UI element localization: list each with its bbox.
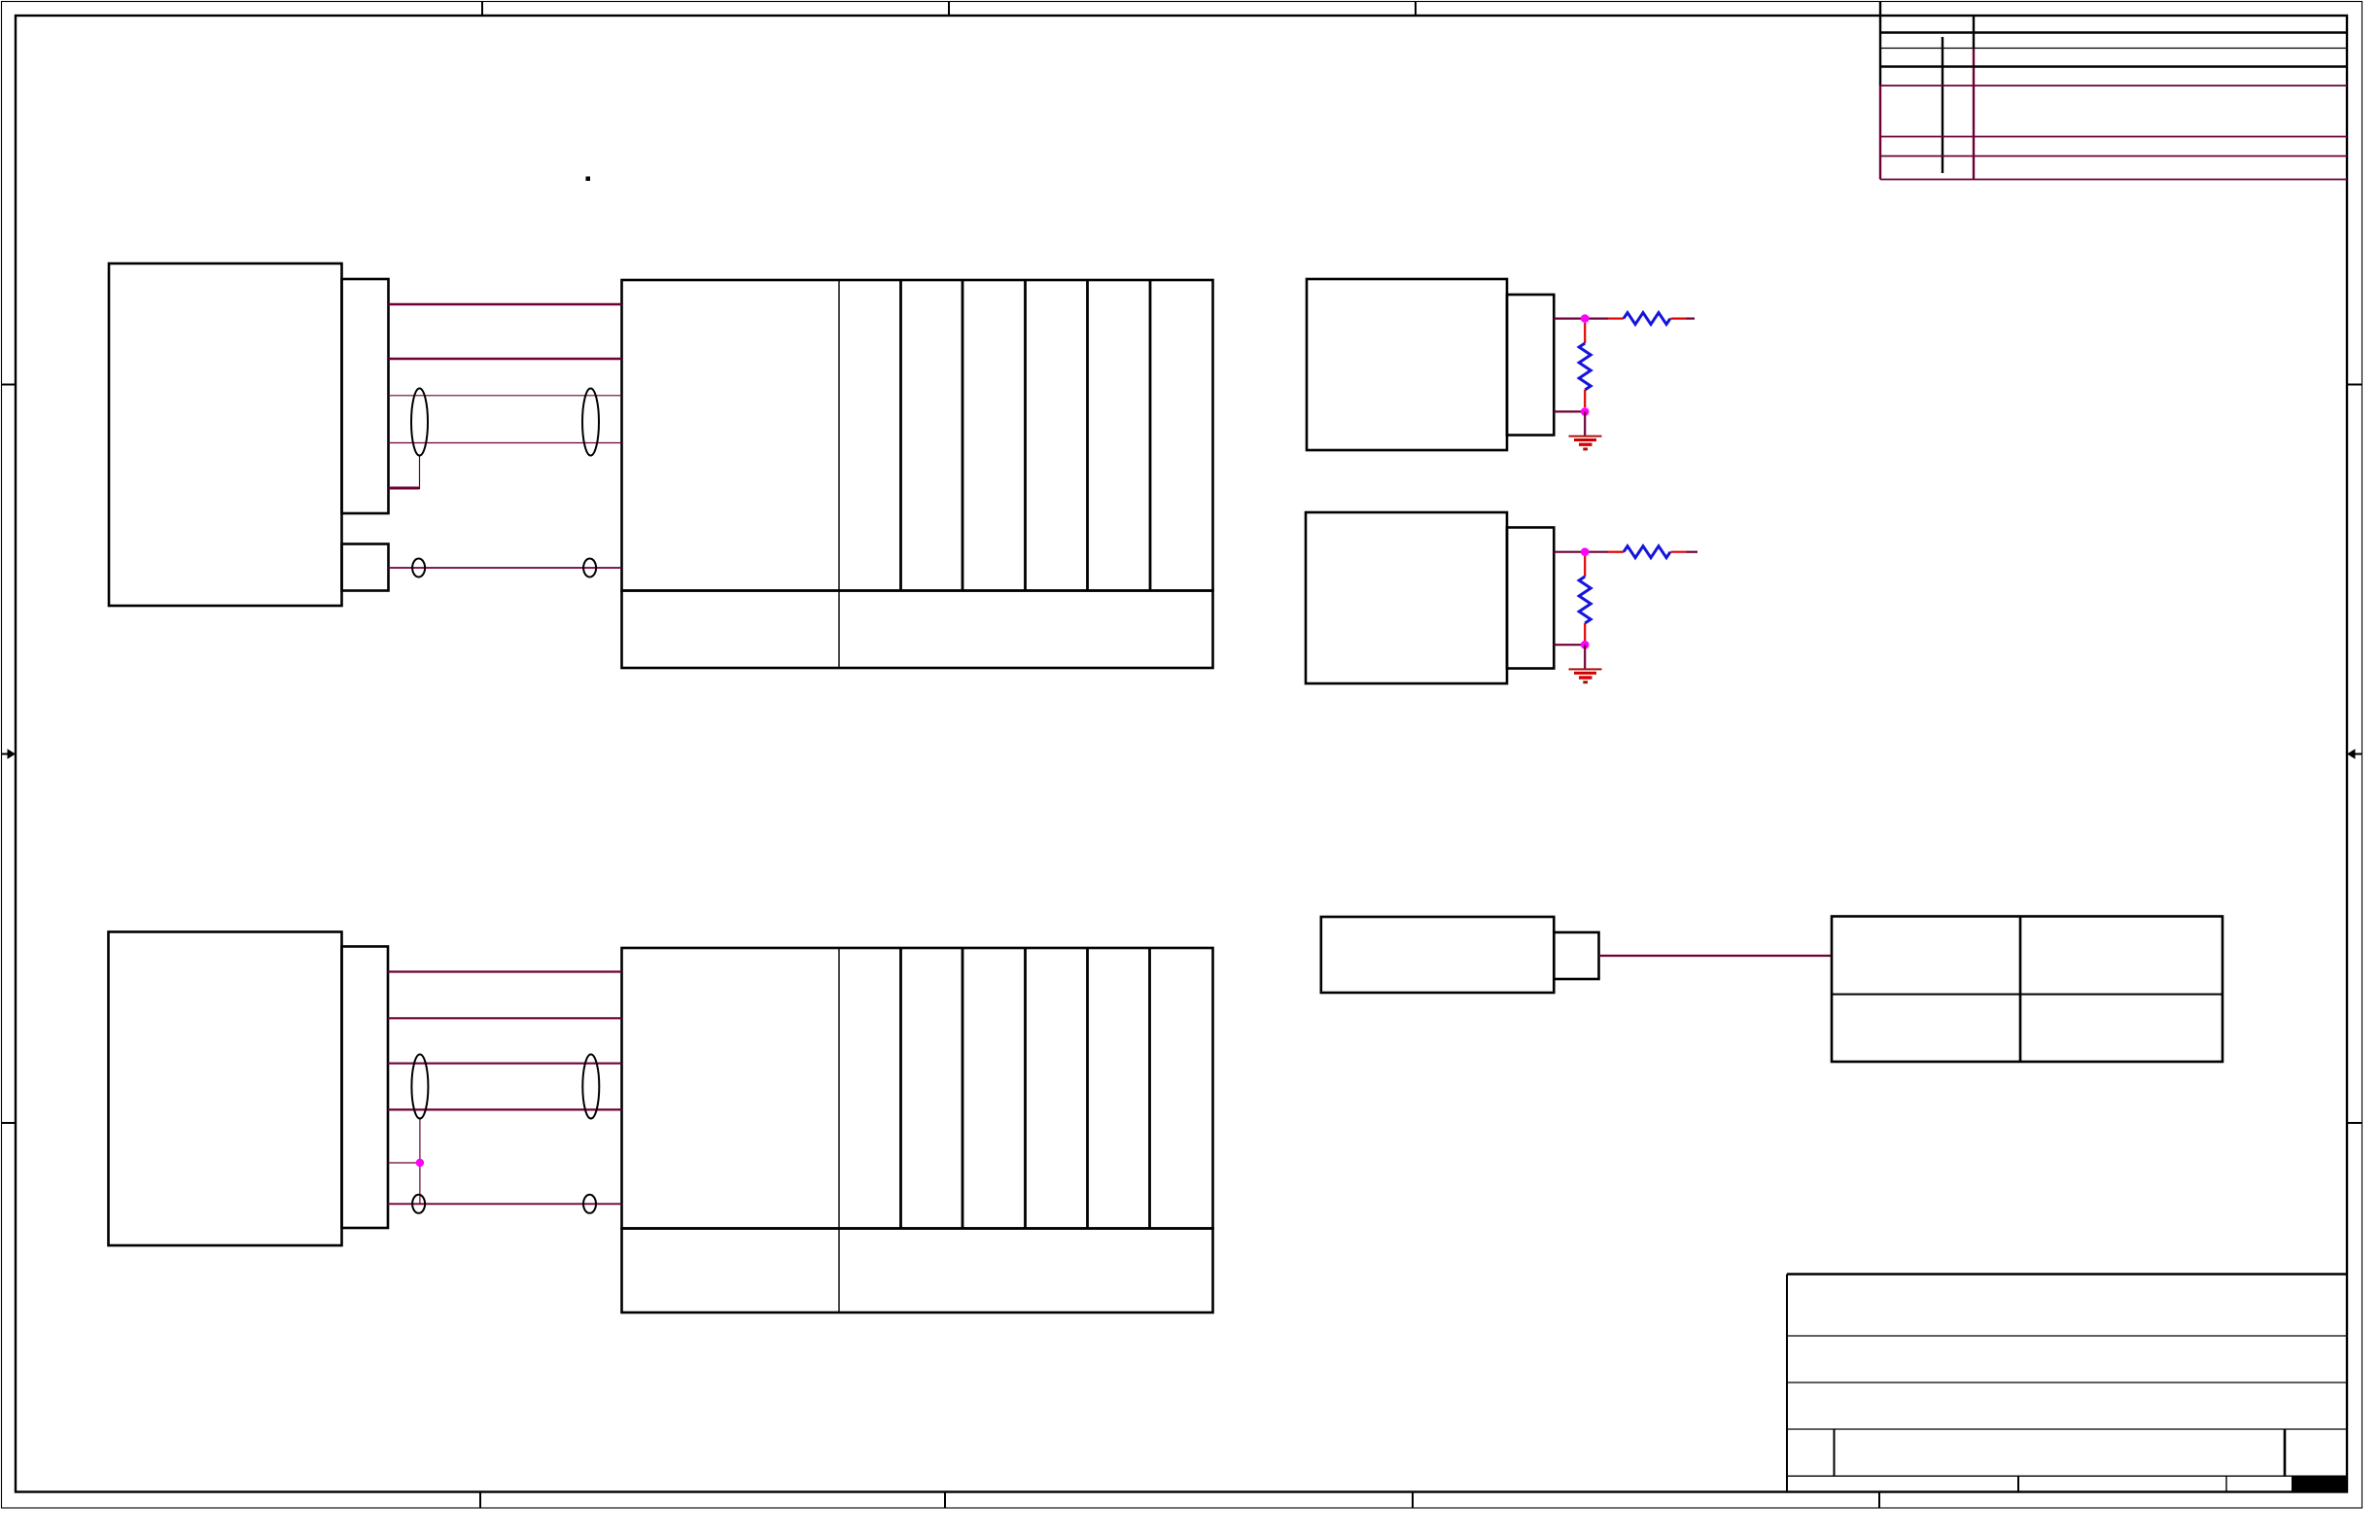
border zone tick bottom 4 [1878,1492,1880,1509]
wire to ground 1 [1584,411,1586,436]
cable oval right 2 [582,1055,599,1119]
wire q2 stub [1554,644,1585,646]
connector J1 pin box lower [342,544,389,591]
wire n2 [389,358,622,361]
junction dot p2 [1581,407,1590,416]
wire n4 [389,442,622,444]
junction dot m [416,1159,424,1167]
wire m1 [388,970,622,972]
junction dot q1 [1581,547,1590,556]
small circle left [412,559,425,577]
border zone tick bottom 1 [479,1492,481,1509]
connector J2 outline [109,932,342,1246]
connector J2 pin box [342,947,389,1229]
wire p1b [1585,318,1608,320]
wire q1 [1554,551,1585,553]
border zone tick top 2 [948,2,950,17]
ground G2 [1569,669,1602,682]
wire n1 [389,303,622,306]
wire n3 [389,395,622,397]
module A pin box [1554,932,1598,979]
resistor R1 [1608,313,1695,325]
wire q1b [1585,551,1608,553]
module B block [1832,917,2222,1063]
connector J3 pin box [1507,295,1554,436]
junction dot p1 [1581,314,1590,323]
wire p1 [1554,318,1585,320]
IC U1 block [622,280,1213,668]
cable oval left [411,389,428,456]
wire n5 [389,567,622,569]
small circle left 2 [412,1195,425,1213]
border zone tick left 2 [1,1122,16,1124]
connector J1 outline [109,263,342,606]
border zone tick top 1 [481,2,483,17]
wire p2 stub [1554,410,1585,412]
border zone tick top 3 [1415,2,1417,17]
connector J4 pin box [1507,528,1554,669]
small dot mark [586,177,591,182]
border zone tick right 2 [2347,1122,2362,1124]
cable oval left 2 [411,1055,428,1119]
wire m5 [388,1203,622,1205]
title block [1787,1275,2348,1493]
resistor R2 vertical [1579,323,1591,407]
border zone tick bottom 3 [1412,1492,1414,1509]
wire m-stub [388,1119,420,1204]
border zone tick bottom 2 [944,1492,946,1509]
wire m4 [388,1108,622,1110]
IC U2 block [622,948,1213,1312]
resistor R4 vertical [1579,556,1591,641]
wire m3 [388,1063,622,1065]
border zone tick right 1 [2347,384,2362,386]
junction dot q2 [1581,641,1590,649]
revision table [1880,2,2347,180]
wire r1 [1599,955,1833,957]
connector J1 pin box upper [342,279,389,513]
wire stub [389,456,420,490]
centering arrow right [2347,749,2362,758]
connector J4 outline [1306,512,1507,683]
small circle right [583,559,596,577]
module A outline [1321,917,1555,993]
connector J3 outline [1307,279,1507,450]
border zone tick left 1 [1,384,16,386]
resistor R3 [1608,546,1697,558]
small circle right 2 [583,1195,596,1213]
centering arrow left [1,749,16,758]
wire to ground 2 [1584,645,1586,669]
ground G1 [1569,437,1602,449]
cable oval right [582,389,599,456]
wire m2 [388,1017,622,1019]
